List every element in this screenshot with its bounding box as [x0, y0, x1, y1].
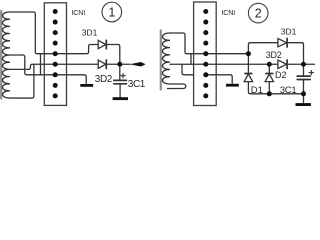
wire: link row 5 to row 6 near connector [190, 54, 192, 65]
transformer T2 winding (right coil) [163, 33, 171, 84]
connector 1CN1 (left box) [44, 3, 66, 106]
diode 3D2 [98, 60, 106, 68]
svg-text:3D2: 3D2 [266, 50, 282, 60]
wire: D1 anode to bottom rail [248, 82, 303, 94]
wire: top lead of T2 to pin row 5 [170, 33, 194, 54]
svg-text:3C1: 3C1 [280, 85, 297, 96]
wire: branch up to diode 3D1 [248, 43, 277, 54]
svg-text:3C1: 3C1 [128, 79, 146, 90]
wire: mid tap of T2 to pin row 6 [170, 63, 194, 65]
output arrow (left) [130, 62, 146, 66]
svg-text:ICNI: ICNI [72, 8, 86, 17]
wire: 3D2 cathode to junction and output edge [287, 63, 315, 65]
wire: row 5 through connector to diode 3D1 branch [44, 45, 98, 54]
wire: row 7 to ground bar (right) [206, 75, 232, 84]
junction node at 3D1/3D2 outputs [117, 62, 122, 67]
junction node rail / 3C1 [301, 91, 306, 96]
wire: D2 anode to bottom rail [268, 82, 270, 94]
ground bar under 3C1 (right) [296, 103, 311, 106]
transformer T1 winding (left coil) [3, 12, 11, 98]
diode D1 cathode wire from row 5 node [247, 54, 249, 74]
ground bar (row 7, left) [80, 84, 93, 87]
wire: bottom lead loop of T2 [168, 84, 186, 89]
svg-text:D2: D2 [275, 70, 287, 80]
svg-text:1: 1 [108, 5, 115, 19]
svg-text:ICNI: ICNI [222, 8, 236, 17]
svg-text:D1: D1 [251, 85, 263, 96]
junction node D2 top [267, 62, 272, 67]
wire: 3C1 to ground bar [119, 84, 121, 97]
diode D1 [245, 73, 252, 75]
junction node D1 branch [246, 51, 251, 56]
svg-text:3D2: 3D2 [95, 74, 113, 85]
connector 1CN1 pins (right) [203, 9, 208, 14]
svg-text:2: 2 [255, 7, 262, 21]
wire: stub from tap down to row 7 at connector edge [182, 64, 194, 75]
circled number 1 [102, 2, 122, 22]
wire: 3D2 cathode to output arrow [106, 63, 130, 65]
svg-text:3D1: 3D1 [281, 27, 297, 37]
connector 1CN1 (right box) [194, 2, 217, 106]
plus sign of 3C1 (right) [309, 70, 313, 74]
svg-text:3D1: 3D1 [82, 28, 98, 38]
capacitor 3C1 plates (right) [297, 75, 310, 77]
wire: tap C of T1 up to pin row 6 [10, 64, 44, 69]
capacitor 3C1 plates [114, 79, 127, 81]
junction node 3D1/3D2 output [301, 62, 306, 67]
connector 1CN1 pins (left) [53, 9, 58, 14]
wire: bottom lead of T1 up to row 6 [10, 64, 34, 98]
transformer T1 core line (left) [0, 11, 2, 99]
plus sign of 3C1 (left) [121, 74, 125, 78]
diode D2 [266, 73, 273, 75]
diode D2 cathode wire from row 6 [268, 64, 270, 73]
diode 3D2 (right) [278, 60, 287, 68]
wire: row 7 to ground bar [44, 75, 86, 84]
wire: branch from row 5 down to row 7 [40, 54, 42, 75]
wire: junction down to capacitor 3C1 [119, 64, 121, 80]
transformer T2 core line (right) [160, 31, 162, 90]
junction node D2 anode on rail [267, 91, 272, 96]
wire: row 6 through connector to diode 3D2 [44, 63, 98, 65]
circled number 2 [248, 3, 268, 23]
ground bar (row 7, right) [226, 84, 239, 87]
wire: 3D1 cathode down to junction [287, 43, 303, 65]
wire: junction down to capacitor 3C1 (right) [303, 64, 305, 76]
wire: 3D1 cathode to junction [106, 45, 120, 65]
diode 3D1 (right) [278, 39, 287, 47]
ground bar under 3C1 (left) [113, 97, 128, 100]
wire: row 6 through connector to diode 3D2 (right) [194, 63, 278, 65]
wire: mid tap B of T1 down to pin row 7 [10, 55, 44, 75]
diode 3D1 [98, 40, 106, 48]
wire: 3C1 bottom through rail to ground bar [303, 80, 305, 103]
wire: row 5 through connector to D1/3D1 node [194, 53, 249, 55]
wire: top lead of T1 to pin row 5 [10, 12, 44, 54]
